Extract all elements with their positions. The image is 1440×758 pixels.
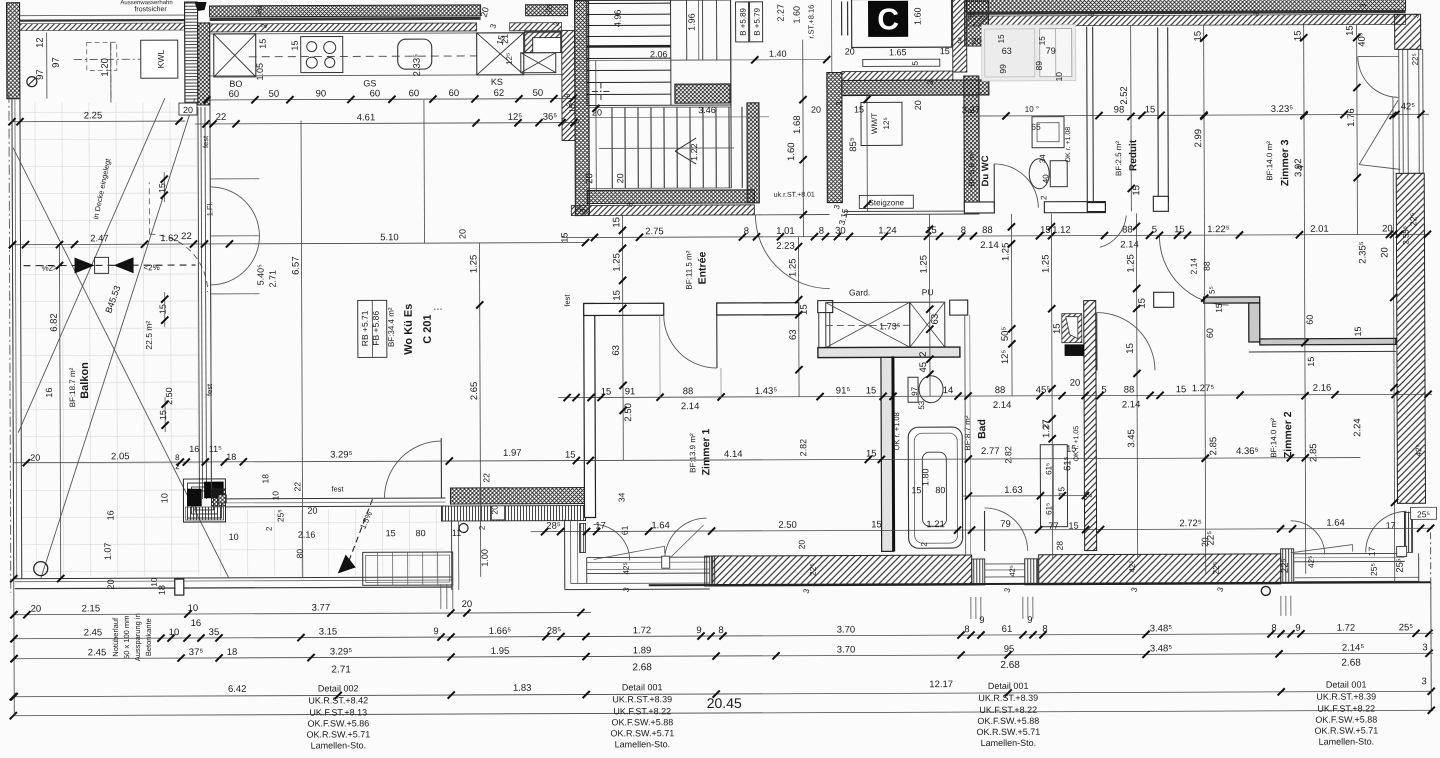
vchain kwl	[110, 42, 112, 102]
vchain x930	[928, 214, 931, 396]
svg-text:97: 97	[910, 386, 919, 395]
svg-text:BF:11.5 m²: BF:11.5 m²	[685, 250, 694, 289]
svg-text:UK.R.ST.+8.39: UK.R.ST.+8.39	[1316, 691, 1376, 701]
svg-text:1.60: 1.60	[913, 7, 923, 25]
svg-text:1.25: 1.25	[1000, 243, 1011, 262]
svg-text:22: 22	[292, 482, 302, 492]
dim row y636	[14, 633, 1433, 638]
svg-text:63: 63	[611, 345, 622, 356]
svg-text:9: 9	[1295, 623, 1300, 634]
svg-text:12⁵: 12⁵	[882, 117, 891, 129]
kitchen top wall masonry band	[210, 23, 477, 32]
svg-text:Lamellen-Sto.: Lamellen-Sto.	[981, 738, 1037, 748]
vchain left margin	[12, 99, 14, 716]
dim row bad 163	[962, 495, 1085, 497]
svg-text:15: 15	[997, 34, 1006, 43]
svg-text:3: 3	[1422, 642, 1427, 653]
living room west edge line	[210, 105, 211, 489]
svg-text:88: 88	[683, 386, 694, 397]
svg-text:50: 50	[533, 88, 544, 99]
svg-text:2.50: 2.50	[623, 403, 634, 422]
svg-text:10: 10	[169, 627, 180, 638]
svg-text:B +5.79: B +5.79	[753, 7, 762, 35]
svg-text:15: 15	[1137, 298, 1148, 309]
svg-text:15: 15	[1056, 487, 1066, 497]
svg-text:45: 45	[918, 362, 929, 373]
svg-text:2.75: 2.75	[645, 226, 664, 237]
entree door arc	[716, 315, 718, 368]
svg-text:18: 18	[227, 647, 238, 658]
svg-text:1.64: 1.64	[651, 520, 670, 531]
svg-text:3.15: 3.15	[319, 626, 338, 637]
zimmer1 window casement arcs	[594, 524, 630, 560]
svg-text:1.05: 1.05	[255, 63, 265, 81]
svg-text:1.22: 1.22	[689, 143, 699, 161]
staircase	[587, 0, 731, 106]
svg-text:22⁵: 22⁵	[1411, 53, 1420, 65]
svg-text:fest: fest	[563, 294, 572, 307]
svg-text:21: 21	[500, 34, 510, 44]
svg-text:62: 62	[494, 88, 505, 99]
svg-text:2: 2	[920, 541, 929, 546]
svg-text:1.89: 1.89	[633, 645, 652, 656]
stair west wall (crosshatch)	[575, 1, 590, 216]
zimmer1 window right jamb	[705, 556, 715, 586]
svg-text:20: 20	[183, 105, 193, 115]
svg-text:20: 20	[1382, 223, 1393, 234]
svg-text:BF:8.7 m²: BF:8.7 m²	[963, 415, 972, 450]
svg-text:5⁵: 5⁵	[1208, 286, 1217, 294]
svg-text:17: 17	[1386, 520, 1396, 530]
svg-text:11: 11	[452, 528, 461, 538]
stair south wall (crosshatch)	[587, 190, 754, 204]
svg-text:42⁵: 42⁵	[622, 562, 631, 574]
svg-text:10: 10	[150, 577, 159, 586]
svg-text:20: 20	[30, 453, 40, 463]
svg-text:6.82: 6.82	[49, 313, 60, 332]
svg-text:8: 8	[819, 226, 824, 237]
window door arc upper	[210, 187, 259, 236]
svg-text:88: 88	[1122, 224, 1133, 235]
svg-text:12: 12	[35, 37, 46, 48]
balcony diagonal brace 2	[17, 98, 166, 433]
svg-text:2: 2	[1084, 493, 1093, 498]
svg-text:Detail 001: Detail 001	[622, 682, 663, 692]
svg-text:Bad: Bad	[976, 419, 988, 439]
terrace slope arrow	[348, 499, 372, 561]
corner window bottom right	[1281, 549, 1294, 583]
oven BO with cross	[214, 34, 256, 77]
svg-text:2.47: 2.47	[90, 233, 109, 244]
stair south wall masonry band	[571, 205, 754, 216]
svg-text:22⁵: 22⁵	[808, 563, 818, 576]
svg-text:60: 60	[370, 88, 381, 99]
svg-text:Detail 001: Detail 001	[1326, 680, 1367, 690]
svg-text:2.27: 2.27	[776, 4, 786, 22]
svg-text:OK r. +1.08: OK r. +1.08	[1065, 127, 1072, 163]
balcony diagonal brace 3	[39, 98, 197, 579]
svg-text:37⁵: 37⁵	[189, 647, 204, 658]
svg-text:3.48⁵: 3.48⁵	[1150, 623, 1173, 634]
bad door	[984, 511, 986, 551]
svg-text:15: 15	[158, 410, 168, 420]
svg-text:22: 22	[181, 231, 192, 242]
svg-text:15: 15	[1176, 384, 1187, 395]
svg-text:15: 15	[1038, 36, 1047, 45]
svg-text:UK.F.ST.+8.22: UK.F.ST.+8.22	[1317, 703, 1375, 713]
elevator marker C box	[869, 1, 908, 36]
svg-text:1.95: 1.95	[491, 646, 510, 657]
svg-text:2.68: 2.68	[632, 662, 652, 673]
svg-text:15: 15	[866, 385, 877, 396]
svg-text:2.14⁵: 2.14⁵	[1342, 643, 1365, 654]
du wc south wall	[964, 202, 994, 213]
svg-text:20: 20	[913, 100, 923, 110]
stair east wall lines	[730, 0, 733, 188]
zimmer1 west window bay frame	[564, 520, 566, 590]
svg-text:53: 53	[917, 400, 926, 409]
svg-text:UK.R.ST.+8.39: UK.R.ST.+8.39	[612, 694, 672, 704]
svg-text:16: 16	[189, 444, 199, 454]
svg-text:2.55⁵: 2.55⁵	[1401, 226, 1410, 245]
kitchen counter line	[210, 75, 562, 76]
svg-text:20: 20	[462, 599, 473, 610]
svg-text:2.23: 2.23	[776, 241, 795, 252]
svg-text:15: 15	[290, 41, 300, 51]
svg-text:<2%: <2%	[143, 263, 159, 272]
hatched corner detail above fridge	[525, 32, 561, 53]
svg-text:42⁵: 42⁵	[1307, 556, 1316, 568]
reduit west wall	[1086, 27, 1089, 212]
stair mid wall block (crosshatch)	[675, 84, 730, 103]
vchain zimmer3 c	[1356, 25, 1359, 235]
balcony slope arrows	[24, 264, 196, 267]
svg-text:Zimmer 3: Zimmer 3	[1279, 139, 1291, 186]
svg-text:2.06: 2.06	[650, 49, 668, 59]
zimmer1 bay side window lines	[580, 524, 586, 553]
svg-text:%2>: %2>	[41, 264, 58, 273]
svg-text:r.ST.+8.16: r.ST.+8.16	[807, 5, 816, 39]
svg-text:98: 98	[1114, 104, 1125, 115]
svg-text:10: 10	[159, 493, 169, 503]
svg-text:2.68: 2.68	[1000, 660, 1020, 671]
gard south T wall	[818, 347, 960, 358]
svg-text:Aussparung in: Aussparung in	[133, 613, 142, 661]
svg-text:Entrée: Entrée	[697, 252, 709, 285]
zimmer1 window band	[587, 556, 710, 558]
svg-text:97: 97	[35, 69, 46, 80]
svg-text:15: 15	[1131, 185, 1142, 196]
svg-text:5: 5	[1152, 224, 1157, 235]
svg-text:15: 15	[1125, 343, 1136, 354]
elevator south wall masonry band	[842, 71, 953, 80]
svg-text:1.63: 1.63	[1004, 485, 1023, 496]
du wc door	[993, 164, 995, 208]
overflow grate	[363, 552, 453, 585]
svg-text:1.72: 1.72	[633, 625, 652, 636]
living room window jamb stub	[211, 489, 225, 506]
svg-text:15: 15	[871, 519, 882, 530]
zimmer1 window divider	[662, 556, 670, 568]
svg-text:25⁵: 25⁵	[275, 509, 285, 522]
svg-text:2.50: 2.50	[778, 520, 797, 531]
balcony parapet top band	[20, 14, 185, 17]
zimmer3 window leaf wedge	[1359, 100, 1398, 164]
svg-text:15: 15	[157, 183, 167, 193]
svg-text:1.73⁵: 1.73⁵	[879, 321, 901, 331]
svg-text:uk.r.ST.+8.01: uk.r.ST.+8.01	[774, 192, 815, 199]
svg-text:20: 20	[1070, 378, 1081, 389]
svg-text:45⁵: 45⁵	[1036, 385, 1051, 396]
svg-text:BF:2.5 m²: BF:2.5 m²	[1114, 141, 1123, 176]
svg-text:3: 3	[957, 36, 962, 45]
hall wall cap zimmer2	[1154, 292, 1174, 307]
balcony diagonal brace 1	[13, 147, 229, 579]
vchain x1052	[1051, 214, 1052, 559]
svg-text:2.52: 2.52	[1119, 86, 1130, 105]
svg-text:20: 20	[797, 540, 807, 550]
svg-text:4.36⁵: 4.36⁵	[1236, 446, 1259, 457]
svg-text:1.43⁵: 1.43⁵	[755, 386, 778, 397]
svg-text:9: 9	[563, 93, 572, 98]
bad washbasin in wall	[1062, 314, 1082, 343]
svg-text:16: 16	[44, 388, 54, 398]
svg-text:1.66⁵: 1.66⁵	[489, 626, 512, 637]
svg-text:79: 79	[1000, 519, 1011, 530]
svg-text:1.07: 1.07	[103, 543, 113, 561]
du wc washbasin	[1032, 117, 1064, 148]
svg-text:90: 90	[316, 89, 327, 100]
svg-text:34: 34	[616, 492, 626, 502]
svg-text:BF:14.0 m²: BF:14.0 m²	[1265, 141, 1274, 181]
reduit door arc	[1100, 216, 1127, 248]
svg-text:15: 15	[1214, 303, 1224, 313]
wall left exterior top (crosshatch)	[7, 3, 20, 99]
svg-text:85⁵: 85⁵	[848, 137, 859, 152]
svg-text:25⁵: 25⁵	[1399, 622, 1414, 633]
svg-text:1.83: 1.83	[513, 683, 532, 694]
svg-text:50⁵: 50⁵	[1000, 327, 1011, 342]
dim row y237	[561, 234, 1429, 237]
dim row y694	[13, 691, 1433, 696]
svg-text:1.65: 1.65	[889, 47, 907, 57]
svg-text:Detail 002: Detail 002	[318, 683, 359, 693]
svg-text:1.97: 1.97	[503, 448, 522, 459]
svg-text:2.35⁵: 2.35⁵	[1357, 241, 1368, 264]
svg-text:95: 95	[1004, 644, 1015, 655]
svg-text:frostsicher: frostsicher	[134, 6, 167, 13]
svg-text:2.01: 2.01	[1310, 224, 1329, 235]
svg-text:8: 8	[1042, 624, 1047, 635]
svg-text:Notüberlauf: Notüberlauf	[111, 617, 120, 657]
svg-text:Betonkante: Betonkante	[144, 618, 153, 656]
svg-text:25⁵: 25⁵	[1417, 509, 1430, 519]
z wall lower bar	[1260, 338, 1396, 345]
svg-text:10: 10	[270, 491, 280, 501]
balcony drain circle	[34, 562, 48, 576]
svg-text:8: 8	[964, 624, 969, 635]
entree partition wall right	[717, 303, 799, 315]
balcony window band west	[198, 107, 200, 499]
dim total 20.45	[13, 710, 1433, 715]
svg-text:20: 20	[106, 579, 116, 589]
svg-text:79: 79	[1046, 46, 1056, 56]
svg-text:3.45: 3.45	[1126, 429, 1137, 448]
svg-text:OK.R.SW.+5.71: OK.R.SW.+5.71	[976, 727, 1040, 737]
crosshatch pier kitchen corner	[198, 23, 210, 105]
svg-text:35: 35	[209, 627, 220, 638]
svg-text:PU: PU	[922, 287, 934, 297]
svg-text:OK.F.SW.+5.88: OK.F.SW.+5.88	[977, 716, 1039, 726]
svg-text:Detail 001: Detail 001	[988, 681, 1029, 691]
svg-text:61: 61	[620, 525, 630, 535]
svg-text:1.60: 1.60	[786, 142, 797, 161]
du wc gray niche	[982, 25, 1076, 81]
vchain x1137	[1136, 213, 1137, 558]
corner window east vertical	[1405, 512, 1413, 552]
corner window casement arc 1	[1291, 521, 1325, 555]
vchain entree west	[621, 215, 624, 460]
kitchen top wall insulation band	[210, 5, 481, 17]
svg-text:GS: GS	[363, 78, 376, 88]
svg-text:17: 17	[595, 520, 606, 531]
svg-text:1.64: 1.64	[1326, 518, 1345, 529]
svg-text:15: 15	[1174, 224, 1185, 235]
dim row y460	[13, 458, 1360, 463]
svg-text:BF:13.9 m²: BF:13.9 m²	[688, 433, 697, 473]
svg-text:WM/T: WM/T	[870, 113, 879, 134]
svg-text:15: 15	[611, 217, 622, 228]
dim row kitchen units	[204, 99, 577, 100]
svg-text:1.25: 1.25	[788, 258, 799, 277]
top wall right masonry band	[967, 14, 1406, 26]
svg-text:17: 17	[1367, 546, 1377, 556]
svg-text:22⁵: 22⁵	[1280, 559, 1291, 574]
corridor east boundary	[964, 315, 967, 555]
elevator south wall (crosshatch)	[842, 80, 989, 96]
dim row y397	[558, 394, 1432, 397]
svg-text:2.82: 2.82	[1003, 446, 1013, 464]
vchain stair west	[595, 60, 597, 190]
svg-text:OK.F.SW.+5.86: OK.F.SW.+5.86	[307, 718, 369, 728]
svg-text:77: 77	[1049, 521, 1059, 531]
svg-text:1.24: 1.24	[878, 225, 897, 236]
svg-text:Steigzone: Steigzone	[869, 198, 905, 207]
balcony south railing	[15, 577, 452, 579]
svg-text:15: 15	[799, 304, 810, 315]
stair west wall hatch strip	[562, 31, 575, 141]
svg-text:2: 2	[918, 352, 929, 357]
svg-text:2.82: 2.82	[798, 439, 808, 457]
right margin vertical line	[1430, 583, 1432, 710]
svg-text:OK.F.SW.+5.88: OK.F.SW.+5.88	[1315, 714, 1377, 724]
svg-text:2.99: 2.99	[1193, 129, 1204, 148]
svg-text:8: 8	[961, 225, 966, 236]
gard cap wall left	[818, 301, 833, 313]
bad east wall hatch	[1084, 301, 1097, 551]
vchain x302	[301, 121, 303, 578]
svg-text:2: 2	[175, 462, 180, 471]
gard cap wall right	[950, 300, 968, 315]
balcony corner post	[175, 579, 184, 595]
pu shaft box	[910, 302, 945, 347]
svg-text:36⁵: 36⁵	[543, 112, 558, 123]
svg-text:22⁵: 22⁵	[1408, 212, 1418, 226]
svg-text:OK.R.SW.+5.71: OK.R.SW.+5.71	[1314, 725, 1378, 735]
top left circle marker	[27, 77, 37, 87]
bottom wall masonry left part	[712, 555, 972, 586]
svg-text:88: 88	[1202, 261, 1212, 271]
svg-text:Gard.: Gard.	[849, 287, 870, 297]
svg-text:3.48⁵: 3.48⁵	[1150, 643, 1173, 654]
svg-text:1.25: 1.25	[1126, 254, 1137, 273]
svg-text:1.72: 1.72	[1337, 623, 1356, 634]
bottom wall masonry right part	[1039, 554, 1281, 585]
svg-text:15: 15	[940, 46, 950, 56]
svg-text:BF:5.8 m²: BF:5.8 m²	[967, 151, 976, 186]
svg-text:1.76: 1.76	[1346, 108, 1357, 127]
svg-text:60: 60	[409, 88, 420, 99]
svg-text:1.25: 1.25	[469, 255, 480, 274]
corridor window	[972, 559, 985, 585]
svg-text:15: 15	[854, 104, 864, 114]
svg-text:10: 10	[1054, 72, 1064, 82]
zimmer2 shower cabinet	[1040, 445, 1067, 527]
svg-text:89: 89	[1034, 61, 1044, 71]
svg-text:16: 16	[105, 510, 115, 520]
reduit east wall	[1157, 27, 1160, 202]
svg-text:OK.F.SW.+5.88: OK.F.SW.+5.88	[611, 717, 673, 727]
living room south window band	[225, 497, 445, 500]
svg-text:12.17: 12.17	[929, 679, 953, 690]
vchain living 1.25	[479, 243, 480, 577]
svg-text:60: 60	[229, 89, 240, 100]
svg-text:2.15: 2.15	[82, 603, 101, 614]
svg-text:28⁵: 28⁵	[547, 626, 562, 637]
top wall right insulation band	[967, 0, 1406, 12]
svg-text:12⁵: 12⁵	[505, 53, 514, 65]
svg-text:80: 80	[935, 485, 945, 495]
dashed ceiling duct arc	[149, 234, 207, 292]
svg-text:50 x 100 mm: 50 x 100 mm	[122, 616, 131, 659]
sink	[398, 39, 432, 69]
svg-text:UK.F.ST.+8.22: UK.F.ST.+8.22	[613, 706, 671, 716]
svg-text:2.77: 2.77	[981, 446, 1000, 457]
svg-text:Lamellen-Sto.: Lamellen-Sto.	[615, 739, 671, 749]
zimmer3 window door arc	[1358, 56, 1399, 97]
svg-text:2.45: 2.45	[84, 627, 103, 638]
svg-text:UK.R.ST.+8.42: UK.R.ST.+8.42	[308, 695, 368, 705]
svg-text:3.70: 3.70	[837, 644, 856, 655]
z wall vertical bar	[1249, 303, 1260, 342]
svg-text:BF:18.7 m²: BF:18.7 m²	[68, 367, 77, 407]
svg-text:BO: BO	[229, 79, 242, 89]
svg-text:OK r. +1.08: OK r. +1.08	[892, 412, 901, 450]
svg-text:2.05: 2.05	[111, 451, 130, 462]
vchain x868 20	[866, 93, 868, 211]
svg-text:Aussenwasserhahn: Aussenwasserhahn	[120, 0, 172, 6]
svg-text:15: 15	[612, 290, 623, 301]
svg-text:20: 20	[845, 46, 855, 56]
bottom wall outer edge line	[649, 582, 1431, 585]
svg-text:9: 9	[696, 625, 701, 636]
svg-text:BF:34.4 m²: BF:34.4 m²	[387, 307, 396, 347]
svg-text:25⁵: 25⁵	[1369, 563, 1379, 576]
svg-text:20.45: 20.45	[707, 695, 742, 711]
svg-text:Lamellen-Sto.: Lamellen-Sto.	[1319, 736, 1375, 746]
svg-text:25⁵: 25⁵	[1395, 558, 1406, 573]
top wall right core line	[967, 12, 1406, 14]
